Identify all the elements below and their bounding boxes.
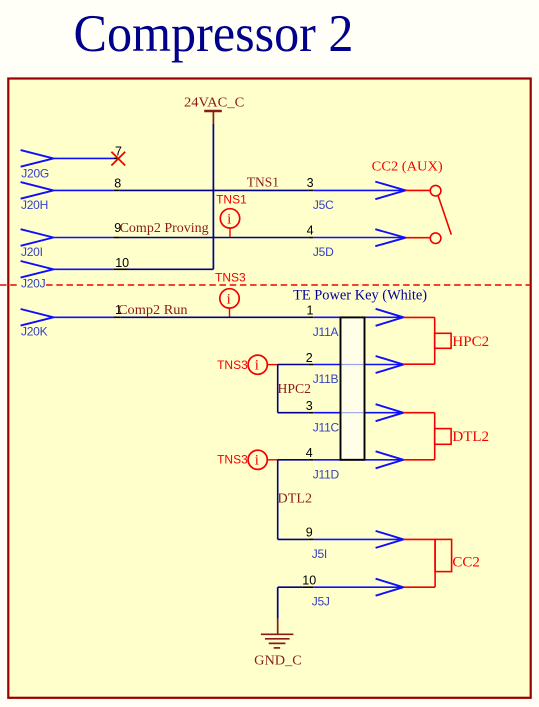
partition dashed line xyxy=(0,284,531,286)
no-connect X xyxy=(111,152,125,166)
relay coil HPC2 xyxy=(403,317,489,364)
svg-text:J5D: J5D xyxy=(313,245,334,259)
wire 1 / Comp2 Run xyxy=(53,316,403,318)
svg-text:J5C: J5C xyxy=(313,198,334,212)
svg-text:10: 10 xyxy=(115,256,129,270)
transformer symbol U-TNS3c xyxy=(248,450,278,469)
wire 10 xyxy=(53,268,213,270)
wire 9 / Comp2 Proving / 4 xyxy=(53,237,405,239)
arrow to J11B xyxy=(376,356,404,373)
key block (TE power key) xyxy=(341,317,365,459)
svg-text:J5J: J5J xyxy=(312,595,330,609)
svg-text:J11C: J11C xyxy=(313,420,340,434)
svg-text:J20K: J20K xyxy=(21,325,48,339)
svg-text:J11B: J11B xyxy=(313,372,339,386)
svg-text:10: 10 xyxy=(302,573,316,587)
wire 2 xyxy=(278,364,404,366)
connector J20K xyxy=(21,309,54,339)
wire vertical w2-w3 xyxy=(277,365,279,413)
arrow to J11A xyxy=(376,309,404,326)
svg-text:DTL2: DTL2 xyxy=(452,429,489,445)
svg-text:J5I: J5I xyxy=(312,547,327,561)
svg-text:Comp2 Proving: Comp2 Proving xyxy=(120,221,209,236)
svg-text:8: 8 xyxy=(114,176,121,190)
wire vertical w10-gnd xyxy=(277,587,279,619)
svg-text:3: 3 xyxy=(307,176,314,190)
svg-text:Comp2 Run: Comp2 Run xyxy=(118,303,188,318)
svg-text:TNS3: TNS3 xyxy=(215,271,246,285)
arrow to J11C xyxy=(376,404,404,421)
svg-text:1: 1 xyxy=(307,303,314,317)
transformer symbol U-TNS1 xyxy=(220,209,239,237)
connector J20G xyxy=(21,150,54,180)
arrow to J5C xyxy=(375,182,405,200)
wire vertical w4-w9 xyxy=(277,460,279,540)
svg-text:i: i xyxy=(255,453,259,469)
transformer symbol U-TNS3a xyxy=(220,289,239,317)
wire 24VAC vertical xyxy=(212,124,214,269)
arrow to J11D xyxy=(376,451,404,468)
transformer symbol U-TNS3b xyxy=(248,355,278,374)
svg-text:i: i xyxy=(255,358,259,374)
svg-text:J20J: J20J xyxy=(21,277,46,291)
svg-text:TNS1: TNS1 xyxy=(216,192,247,206)
arrow to J5D xyxy=(375,229,405,246)
wire 10 (lower) xyxy=(278,586,404,588)
svg-text:2: 2 xyxy=(306,351,313,365)
svg-text:CC2 (AUX): CC2 (AUX) xyxy=(372,160,443,175)
svg-text:J11D: J11D xyxy=(313,467,340,481)
relay coil DTL2 xyxy=(403,413,489,460)
wire 3 xyxy=(278,412,404,414)
svg-text:HPC2: HPC2 xyxy=(278,382,312,397)
svg-text:9: 9 xyxy=(306,526,313,540)
svg-text:i: i xyxy=(227,211,231,227)
connector J20J xyxy=(21,261,54,291)
svg-text:4: 4 xyxy=(307,224,314,238)
svg-text:3: 3 xyxy=(306,399,313,413)
svg-text:CC2: CC2 xyxy=(452,555,480,571)
connector J20I xyxy=(21,229,54,259)
relay coil CC2 xyxy=(403,539,480,587)
switch CC2 (AUX) xyxy=(372,160,452,244)
svg-text:HPC2: HPC2 xyxy=(452,334,489,350)
arrow to J5I xyxy=(376,531,404,548)
ground GND_C xyxy=(254,619,302,669)
svg-text:TNS3: TNS3 xyxy=(217,453,248,467)
svg-text:J20H: J20H xyxy=(21,198,48,212)
wire 4 xyxy=(278,459,404,461)
svg-text:TNS1: TNS1 xyxy=(247,175,279,190)
wire 7 stub xyxy=(53,157,113,159)
power symbol 24VAC_C xyxy=(184,95,244,124)
svg-text:J20G: J20G xyxy=(21,166,49,180)
svg-text:4: 4 xyxy=(306,446,313,460)
svg-text:Compressor 2: Compressor 2 xyxy=(74,5,354,63)
connector J20H xyxy=(21,182,54,212)
svg-text:24VAC_C: 24VAC_C xyxy=(184,95,244,110)
arrow to J5J xyxy=(376,579,404,596)
svg-text:GND_C: GND_C xyxy=(254,653,302,668)
svg-text:TNS3: TNS3 xyxy=(217,358,248,372)
svg-text:J20I: J20I xyxy=(21,245,43,259)
svg-text:i: i xyxy=(227,291,231,307)
svg-text:TE Power Key (White): TE Power Key (White) xyxy=(293,288,427,304)
svg-text:DTL2: DTL2 xyxy=(278,492,313,507)
wire 9 xyxy=(278,538,404,540)
wire 8 / TNS1 / 3 xyxy=(53,189,405,191)
svg-text:J11A: J11A xyxy=(313,325,339,339)
